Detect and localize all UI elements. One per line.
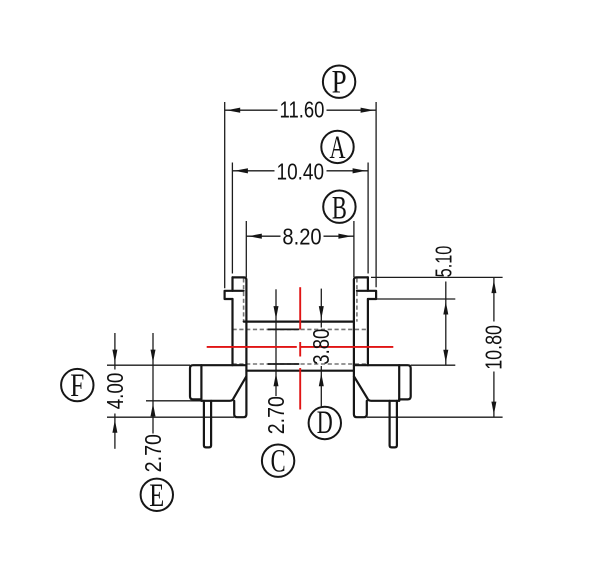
hidden flange inner left [243, 278, 245, 321]
svg-text:A: A [330, 130, 346, 166]
horizontal centerline right segment [301, 346, 394, 348]
arrow C top (down) [274, 306, 279, 319]
extension foot bottom right (for 10.80) [367, 416, 503, 418]
arrow 11.60 left [227, 108, 241, 113]
extension foot top right (for 5.10) [411, 364, 456, 366]
dim F 4.00 line upper tail [114, 333, 116, 370]
dim F 4.00 line lower tail [114, 414, 116, 449]
dim D 3.80 line upper [320, 289, 322, 328]
arrow 8.20 left [248, 234, 261, 239]
dim 8.20 extension right [353, 221, 355, 277]
dim 11.60 extension right [375, 102, 377, 287]
dim 8.20 extension left [245, 221, 247, 277]
arrow 10.40 right [353, 168, 367, 173]
tube top line [244, 321, 354, 323]
svg-text:2.70: 2.70 [263, 396, 289, 434]
extension notch seat right (for 5.10) [376, 298, 455, 300]
vertical centerline middle segment [299, 342, 301, 357]
left notch [225, 291, 244, 299]
arrow E bottom (up) [151, 403, 156, 416]
arrow 10.80 down [491, 402, 496, 415]
top edge right with corner into tube wall [354, 277, 368, 279]
right flange outer wall upper [367, 277, 369, 290]
svg-text:E: E [149, 478, 164, 514]
svg-text:4.00: 4.00 [102, 373, 128, 410]
right tube wall down into base bottom [354, 280, 367, 417]
extension stubs over hidden lines (C dim) [268, 329, 300, 364]
svg-text:B: B [332, 191, 347, 227]
svg-text:5.10: 5.10 [430, 246, 456, 278]
dim 10.80 line upper [493, 278, 495, 322]
arrow 10.40 left [234, 168, 248, 173]
dim 10.40 extension right [367, 163, 369, 274]
arrow 10.80 up [491, 280, 496, 293]
arrow 5.10 up [443, 302, 448, 315]
right foot top edge and tab [354, 365, 411, 399]
dim E 2.70 lower tail [152, 401, 154, 434]
dim 10.80 line lower [493, 372, 495, 418]
circle B [323, 191, 355, 223]
arrow F bottom (up) [112, 420, 117, 433]
top edge left with corner into tube wall [233, 277, 247, 279]
svg-text:2.70: 2.70 [140, 434, 166, 472]
circle E [141, 479, 173, 511]
svg-text:10.80: 10.80 [480, 325, 506, 370]
left foot divider [200, 365, 202, 401]
horizontal centerline left segment [207, 346, 297, 348]
arrow F top (down) [112, 350, 117, 363]
left flange outer wall upper [231, 277, 233, 290]
right foot divider [398, 365, 400, 401]
svg-text:F: F [70, 368, 84, 404]
circle C [262, 445, 294, 477]
svg-text:11.60: 11.60 [280, 97, 325, 123]
hidden flange inner right [356, 278, 358, 321]
svg-text:D: D [317, 405, 333, 441]
right pin [390, 401, 397, 448]
arrow 8.20 right [338, 234, 352, 239]
svg-text:P: P [332, 65, 347, 101]
vertical centerline top segment [299, 287, 301, 329]
left foot top edge and tab [190, 365, 246, 399]
extension top edge right (for 10.80) [371, 276, 503, 278]
dim 8.20 line [246, 235, 280, 237]
right foot bottom edge into chamfer [354, 376, 399, 400]
circle P [323, 66, 355, 98]
extension foot bottom-edge left (for E) [146, 400, 201, 402]
dim D 3.80 line lower [320, 366, 322, 406]
dim 10.40 extension left [231, 163, 233, 274]
right flange outer wall lower [367, 299, 369, 365]
left pin [204, 401, 211, 448]
extension foot top left (for F / E) [107, 364, 190, 366]
dim E 2.70 line [152, 333, 154, 401]
arrow D bottom (up) [319, 373, 324, 386]
svg-text:3.80: 3.80 [308, 329, 334, 365]
vertical centerline bottom segment [299, 368, 301, 410]
svg-text:8.20: 8.20 [282, 223, 321, 249]
extension base bottom left (for F) [107, 416, 234, 418]
arrow E top (down) [151, 350, 156, 363]
circle F [61, 369, 93, 401]
left tube wall down into base bottom [234, 280, 246, 417]
dim C 2.70 line [275, 289, 277, 396]
right notch [357, 291, 376, 299]
circle A [321, 131, 353, 163]
tube bottom line [247, 370, 354, 372]
dim 11.60 line [225, 109, 278, 111]
left flange outer wall lower [231, 299, 233, 365]
arrow D top (down) [319, 306, 324, 319]
svg-text:10.40: 10.40 [277, 158, 325, 184]
svg-text:C: C [271, 444, 286, 480]
hidden hole top [233, 328, 369, 330]
circle D [309, 407, 341, 439]
left foot bottom edge into chamfer [201, 376, 246, 400]
dim 5.10 line [445, 282, 447, 366]
arrow 5.10 down [443, 350, 448, 363]
dim 10.40 line [232, 170, 274, 172]
dim 11.60 extension left [224, 102, 226, 288]
hidden hole bottom [233, 363, 369, 365]
arrow C bottom (up) [274, 373, 279, 386]
arrow 11.60 right [361, 108, 375, 113]
